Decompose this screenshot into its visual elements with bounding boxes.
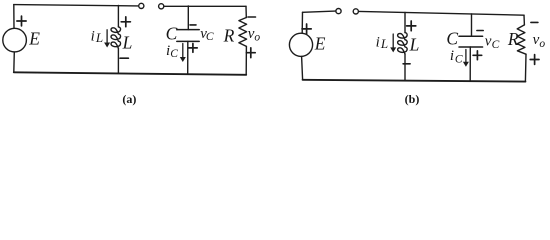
svg-text:C: C — [170, 48, 178, 60]
svg-text:L: L — [409, 34, 420, 54]
svg-text:L: L — [95, 30, 103, 45]
svg-text:L: L — [380, 36, 388, 51]
svg-text:o: o — [539, 38, 545, 50]
svg-text:i: i — [450, 48, 454, 64]
svg-text:o: o — [254, 32, 260, 44]
svg-text:(b): (b) — [405, 92, 420, 106]
svg-text:C: C — [492, 39, 500, 51]
svg-text:i: i — [376, 34, 380, 50]
svg-text:R: R — [223, 26, 235, 46]
svg-text:C: C — [206, 31, 214, 43]
svg-text:E: E — [28, 28, 40, 48]
svg-text:C: C — [455, 54, 463, 66]
svg-text:C: C — [166, 23, 178, 43]
svg-text:R: R — [507, 29, 519, 49]
svg-text:E: E — [314, 34, 326, 54]
svg-text:i: i — [91, 29, 95, 45]
svg-text:(a): (a) — [122, 92, 136, 106]
svg-text:L: L — [122, 32, 133, 52]
svg-text:C: C — [446, 28, 458, 48]
